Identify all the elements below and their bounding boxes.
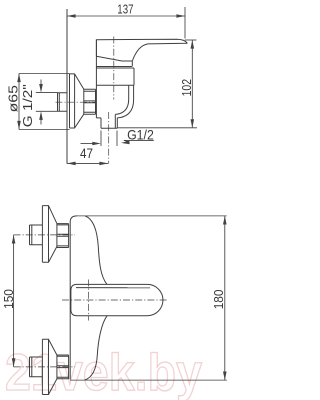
body upper shoulder curve [85,216,107,285]
body left edge [95,40,97,118]
mounting nut (side view) [84,89,96,114]
outlet pipe [101,114,117,128]
bottom escutcheon [42,339,57,394]
svg-text:21vek.by: 21vek.by [5,343,202,400]
body cartridge band [96,68,134,85]
svg-text:150: 150 [1,289,16,309]
dimension G 1/2" extension lines [36,92,58,94]
body bottom edge [96,117,101,119]
svg-text:102: 102 [179,79,194,97]
handle centerline [113,37,115,100]
body left edge (front view) [69,222,71,380]
svg-text:180: 180 [211,290,226,310]
inlet centerline [56,101,97,103]
handle lever (side view) [96,39,187,66]
svg-text:G 1/2": G 1/2" [20,84,35,127]
svg-text:137: 137 [117,2,133,17]
top inlet centerline [14,234,76,236]
dimension G 1/2" arrows [40,80,42,87]
escutcheon (wall flange, side view) [70,74,84,128]
inlet pipe stub (wall side) [58,93,68,112]
top mounting nut [57,224,69,248]
dimension 102 line [191,40,193,128]
extension line right of 137 [184,7,186,39]
body lower shoulder curve [85,316,108,380]
dimension ø65 extension lines [19,73,70,75]
baseline / 180 bottom extension [70,379,227,381]
outlet thread dimension arrows [81,143,94,145]
dimension 137 line [67,15,185,17]
dimension ø65 line [18,74,20,130]
body top corner [70,216,77,222]
dimension 102 bottom extension [117,127,197,129]
bottom mounting nut [57,355,69,379]
body inner contour [115,85,128,114]
handle paddle (plan view) [71,284,163,315]
wall line [66,9,68,164]
bottom inlet centerline [14,366,76,368]
svg-text:ø65: ø65 [6,85,21,112]
top escutcheon [42,206,57,263]
body top edge / 180 top extension [77,215,227,217]
dimension 102 top extension [185,39,197,41]
body horizontal centerline [62,299,168,301]
body outer contour right [117,85,133,118]
svg-text:47: 47 [80,146,93,161]
handle paddle inner line [76,287,150,289]
dimension 150 line [13,235,15,367]
dimension 47 line [67,162,108,164]
outlet centerline [108,112,110,164]
neck base line [96,66,131,68]
bottom inlet stub [30,357,43,377]
dimension 180 line [224,216,226,380]
top inlet stub [30,225,43,245]
outlet thread extension lines [100,131,102,147]
handle pivot centerline [88,280,90,321]
